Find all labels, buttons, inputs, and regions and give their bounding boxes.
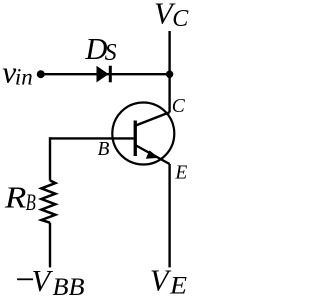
transistor Q1 emitter arrow	[146, 150, 159, 158]
wire base vertical	[49, 137, 51, 180]
svg-text:R: R	[4, 181, 27, 215]
wire input	[41, 73, 170, 75]
transistor Q1 base bar	[134, 121, 137, 157]
svg-text:in: in	[15, 65, 33, 90]
node VE label	[150, 264, 187, 300]
transistor Q1 collector lead	[136, 112, 170, 125]
svg-text:V: V	[32, 264, 54, 298]
node VC label	[154, 0, 189, 32]
wire base	[50, 137, 134, 139]
svg-text:BB: BB	[53, 274, 85, 300]
svg-text:B: B	[26, 190, 36, 215]
transistor Q1 emitter lead	[136, 146, 170, 165]
node -VBB label	[17, 264, 84, 300]
diode DS	[97, 66, 112, 83]
wire emitter vertical	[168, 164, 170, 267]
svg-text:S: S	[105, 40, 117, 66]
transistor Q1 circle	[112, 103, 174, 165]
svg-text:E: E	[174, 163, 187, 184]
junction dot	[166, 71, 173, 78]
resistor RB	[41, 180, 55, 222]
wire resistor bottom	[49, 223, 51, 268]
label RB	[4, 181, 36, 215]
svg-text:B: B	[98, 139, 110, 160]
svg-text:V: V	[150, 264, 172, 298]
terminal dot vin	[37, 70, 45, 78]
node vin label	[2, 55, 32, 90]
svg-text:C: C	[172, 96, 186, 117]
label DS	[84, 32, 116, 66]
svg-text:E: E	[169, 272, 187, 299]
wire collector vertical	[168, 31, 170, 112]
svg-text:C: C	[172, 6, 189, 32]
